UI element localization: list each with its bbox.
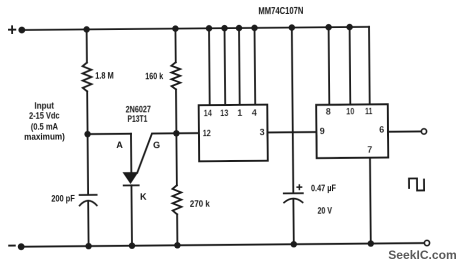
svg-text:SeekIC.com: SeekIC.com	[388, 248, 457, 262]
svg-text:14: 14	[204, 108, 212, 118]
transistor Q1 2N6027 PUT triangle	[124, 173, 138, 183]
output terminal pin 6 open circle	[421, 129, 426, 134]
svg-text:9: 9	[320, 126, 325, 136]
junction top rail x=210	[206, 25, 212, 31]
junction top rail x=350.6	[346, 24, 352, 30]
svg-text:13: 13	[220, 108, 228, 118]
junction top rail x=225.5	[221, 25, 227, 31]
capacitor C2 0.47 uF	[284, 193, 303, 202]
svg-text:10: 10	[346, 106, 354, 116]
wire top rail to resistor 160k	[174, 29, 176, 63]
svg-text:1: 1	[237, 108, 242, 118]
wire gate node to resistor 270k	[175, 133, 177, 185]
resistor R2 160 k	[171, 62, 180, 89]
svg-text:MM74C107N: MM74C107N	[258, 6, 303, 17]
junction bottom rail x=369.8	[368, 240, 374, 246]
svg-text:7: 7	[367, 145, 372, 155]
svg-text:1.8 M: 1.8 M	[95, 71, 114, 81]
capacitor C2 0.47 uF polarity plus	[297, 185, 301, 189]
svg-text:A: A	[116, 140, 123, 150]
junction bottom rail x=131	[129, 242, 135, 248]
svg-text:maximum): maximum)	[24, 132, 65, 142]
junction top rail x=176.4	[172, 25, 178, 31]
svg-text:200 pF: 200 pF	[51, 193, 75, 203]
wire top rail to capacitor 0.47uF	[292, 28, 293, 193]
svg-text:270 k: 270 k	[190, 199, 211, 209]
junction bottom rail x=176.4	[174, 242, 180, 248]
svg-text:8: 8	[326, 106, 331, 116]
wire bottom return rail	[21, 243, 424, 247]
label Input 2-15 Vdc (0.5 mA maximum)	[24, 100, 65, 142]
junction top rail x=255.5	[251, 25, 257, 31]
svg-text:G: G	[153, 140, 160, 150]
wire U1 pin 3 to U2 pin 9	[267, 131, 316, 133]
wire gate node to pin 12 of U1	[176, 132, 199, 134]
wire capacitor 0.47uF to bottom rail	[292, 199, 294, 244]
wire top rail to U1 pin 13	[224, 28, 227, 105]
svg-text:(0.5 mA: (0.5 mA	[31, 121, 59, 131]
wire U2 pin 7 to bottom rail	[369, 158, 372, 244]
wire top rail to U1 pin 1	[238, 28, 241, 105]
wire PUT anode lead	[130, 134, 132, 173]
wire node A horizontal to PUT anode	[88, 133, 131, 135]
wire top rail to U2 pin 8	[328, 27, 331, 105]
output terminal bottom open circle	[424, 240, 429, 245]
svg-text:P13T1: P13T1	[127, 114, 147, 124]
junction bottom rail x=292.8	[291, 241, 297, 247]
svg-text:6: 6	[379, 125, 384, 135]
wire top rail corner down to U2 pin 11	[368, 27, 371, 105]
wire U2 pin 6 output	[388, 130, 421, 132]
wire top rail to U1 pin 14	[208, 28, 211, 105]
wire PUT gate diagonal	[137, 133, 177, 173]
op-amp U2 flip-flop box MM74C107N second half	[316, 104, 388, 158]
svg-text:12: 12	[203, 128, 211, 138]
junction top rail x=87.6	[83, 26, 89, 32]
capacitor C1 200 pF	[80, 195, 97, 206]
wire resistor 270k to bottom rail	[176, 214, 178, 245]
wire resistor 160k to gate node	[175, 89, 177, 133]
svg-text:K: K	[140, 192, 147, 202]
svg-text:3: 3	[260, 127, 265, 137]
wire resistor 1.8M to node A junction	[86, 91, 88, 134]
junction top rail x=240	[236, 25, 242, 31]
wire top rail to U2 pin 10	[349, 27, 352, 105]
svg-text:11: 11	[365, 106, 372, 116]
gate node junction dot	[173, 130, 179, 136]
square wave output symbol	[409, 178, 424, 190]
wire from top rail to resistor 1.8M	[86, 29, 88, 62]
node A junction dot	[84, 131, 90, 137]
svg-text:4: 4	[252, 108, 257, 118]
svg-text:0.47 µF: 0.47 µF	[311, 183, 337, 193]
op-amp U1 flip-flop box MM74C107N first half	[199, 105, 268, 162]
svg-text:160 k: 160 k	[145, 71, 164, 81]
svg-text:Input: Input	[34, 100, 54, 110]
svg-text:20 V: 20 V	[317, 205, 332, 215]
junction bottom rail x=87.6	[85, 243, 91, 249]
wire top rail to U1 pin 4	[254, 28, 257, 105]
- input terminal	[9, 243, 24, 250]
wire node A junction to capacitor 200pF	[87, 134, 90, 194]
wire capacitor 200pF to bottom rail	[87, 202, 89, 246]
transistor Q1 cathode bar	[124, 184, 139, 186]
junction top rail x=292.8	[289, 24, 295, 30]
wire PUT cathode to bottom rail	[130, 185, 133, 245]
wire top supply rail	[22, 27, 369, 30]
+ input terminal	[9, 26, 25, 33]
svg-text:2-15 Vdc: 2-15 Vdc	[29, 111, 60, 121]
junction top rail x=329.6	[325, 24, 331, 30]
resistor R3 270 k	[172, 185, 181, 214]
resistor R1 1.8 M	[83, 63, 92, 92]
